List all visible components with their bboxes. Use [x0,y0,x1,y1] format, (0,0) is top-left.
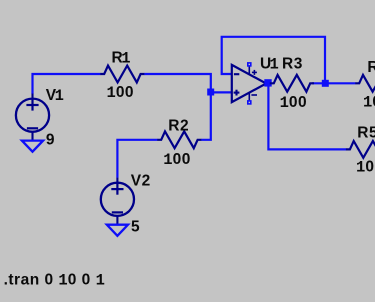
resistor R2 [157,131,201,148]
svg-text:9: 9 [46,132,55,149]
svg-text:.tran 0 10 0 1: .tran 0 10 0 1 [4,271,105,289]
resistor R3 [270,75,314,92]
resistor R4 [355,75,375,92]
svg-text:R5: R5 [357,124,375,141]
wire V1 top to R1 left [33,74,101,94]
svg-text:100: 100 [356,159,375,177]
svg-text:100: 100 [363,93,375,111]
wire op-amp output down to R5 row [268,86,346,149]
svg-text:R2: R2 [168,117,189,134]
svg-text:5: 5 [131,219,140,236]
svg-text:100: 100 [107,84,135,102]
svg-text:R4: R4 [367,59,375,76]
resistor R1 [100,66,144,83]
ground below V2 [107,225,128,236]
node B junction [322,80,329,87]
voltage source V1 [16,94,49,141]
svg-text:V1: V1 [46,87,64,105]
voltage source V2 [101,178,134,225]
wire R2 left to V2 top [117,140,157,178]
svg-text:R3: R3 [282,55,303,72]
wire R3 right to node B to R4 left [312,82,356,84]
svg-text:V2: V2 [131,172,151,189]
svg-text:R1: R1 [112,49,131,67]
output node junction [264,79,271,86]
op-amp V+ pin [247,62,252,67]
wire feedback loop minus input to top rail to R3/R4 node [222,37,325,80]
ground below V1 [22,141,43,152]
node A junction [207,89,214,96]
wire R1 right to node A vertical down to R2 row [144,74,211,140]
op-amp U1 [232,65,266,102]
svg-text:100: 100 [280,94,308,112]
wire node A to op-amp plus input [211,91,232,93]
svg-text:U1: U1 [260,55,279,73]
op-amp V- pin [247,100,252,105]
svg-text:100: 100 [163,151,191,169]
resistor R5 [346,141,375,158]
